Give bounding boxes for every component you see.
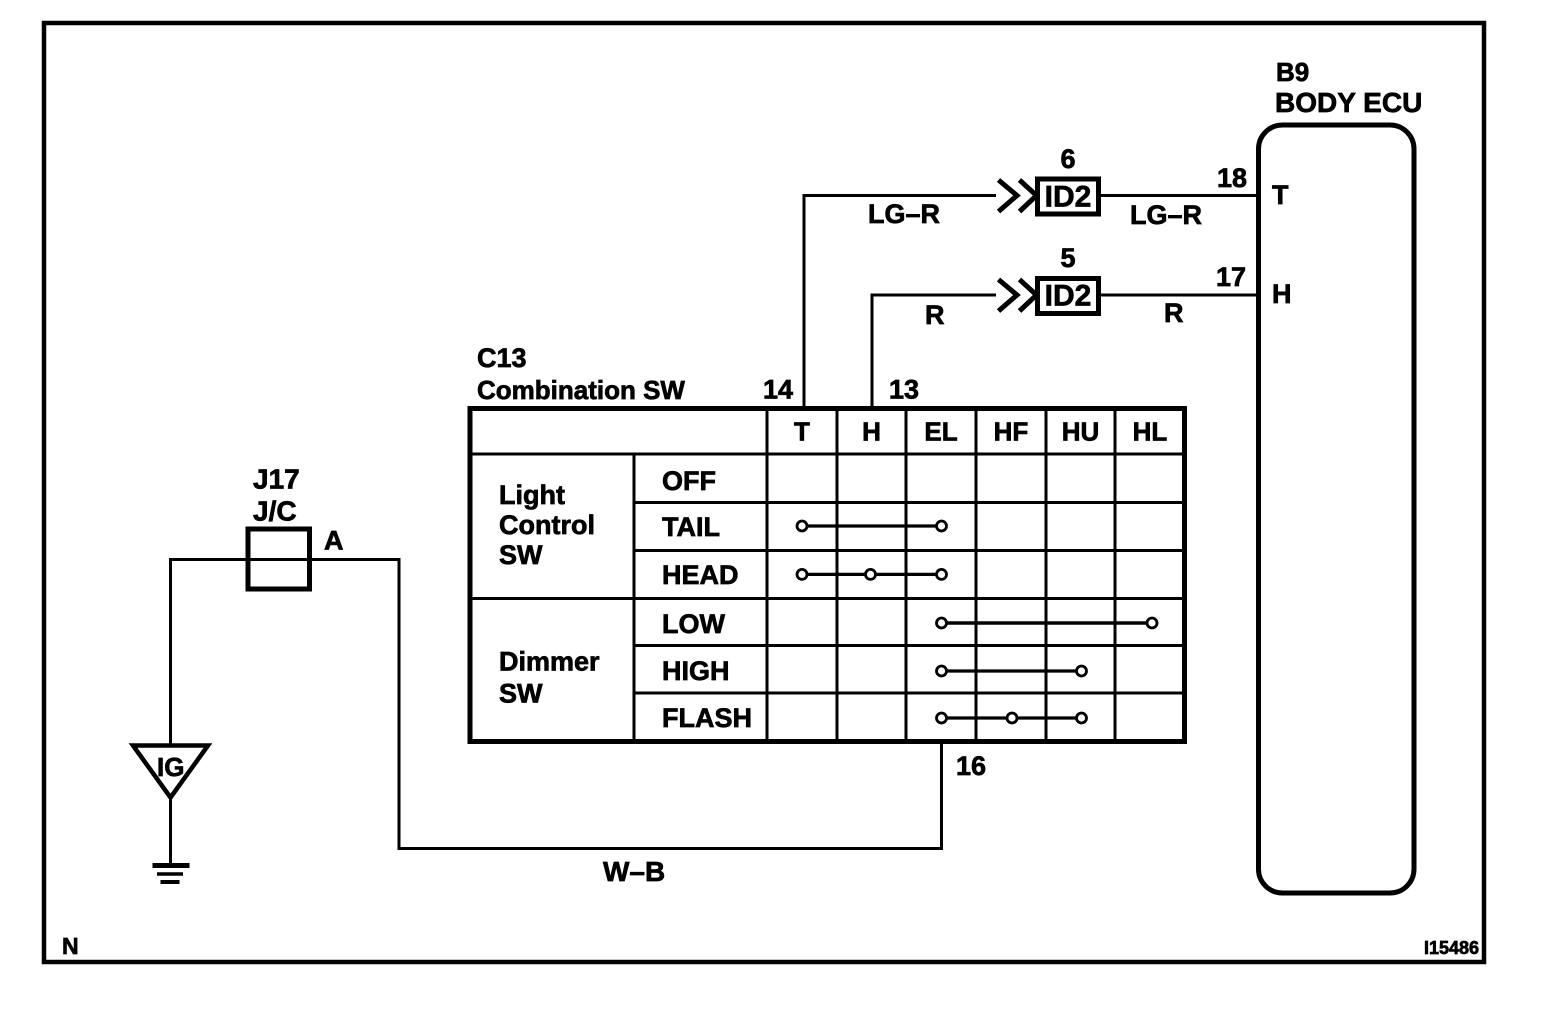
svg-text:W–B: W–B [603, 856, 665, 887]
label Combination SW [477, 375, 685, 405]
label LG-R (left) [868, 199, 940, 229]
contact LOW: EL to HL [937, 618, 1158, 628]
svg-text:H: H [862, 417, 881, 447]
svg-text:HEAD: HEAD [662, 560, 739, 590]
power source IG [133, 746, 208, 798]
svg-text:BODY ECU: BODY ECU [1275, 87, 1422, 118]
svg-text:C13: C13 [477, 343, 527, 373]
label W-B [603, 856, 665, 887]
wire R from ID2 pin 5 to B9 pin 17 [1101, 294, 1256, 297]
svg-text:T: T [1272, 180, 1289, 210]
label Light Control SW [499, 480, 595, 570]
label R (right) [1164, 298, 1184, 328]
label LG-R (right) [1130, 200, 1202, 230]
svg-text:IG: IG [157, 752, 184, 782]
svg-text:Light: Light [499, 480, 565, 510]
label Dimmer SW [499, 647, 600, 709]
svg-text:T: T [794, 417, 810, 447]
svg-text:J17: J17 [253, 464, 300, 495]
svg-text:I15486: I15486 [1424, 938, 1479, 958]
wire from J17 through to IG [171, 560, 311, 746]
svg-text:EL: EL [924, 417, 957, 447]
svg-text:SW: SW [499, 540, 543, 570]
svg-text:H: H [1272, 279, 1292, 309]
svg-text:16: 16 [956, 751, 986, 781]
contact FLASH: EL to HF to HU [937, 713, 1087, 723]
svg-text:ID2: ID2 [1045, 181, 1092, 214]
contact HEAD: T to H to EL [797, 569, 947, 579]
svg-text:6: 6 [1060, 144, 1075, 174]
pin 14 label [763, 375, 793, 405]
connector ID2 pin 5 [1038, 279, 1099, 314]
pin 17 label [1216, 262, 1246, 292]
label BODY ECU [1275, 87, 1422, 118]
pin number 5 [1060, 243, 1075, 273]
pin 16 label [956, 751, 986, 781]
svg-text:HIGH: HIGH [662, 656, 730, 686]
svg-text:B9: B9 [1276, 57, 1309, 87]
svg-text:5: 5 [1060, 243, 1075, 273]
svg-text:Control: Control [499, 510, 595, 540]
arrow into connector ID2 pin 6 [999, 180, 1037, 212]
svg-text:LOW: LOW [662, 609, 725, 639]
pin T of B9 [1272, 180, 1289, 210]
label J/C [253, 496, 297, 527]
wire LG-R from C13 pin 14 to ID2 pin 6 [804, 196, 996, 407]
switch position labels [662, 466, 752, 733]
svg-text:R: R [1164, 298, 1184, 328]
pin H of B9 [1272, 279, 1292, 309]
pin 18 label [1217, 163, 1247, 193]
svg-text:18: 18 [1217, 163, 1247, 193]
svg-text:LG–R: LG–R [868, 199, 940, 229]
svg-text:17: 17 [1216, 262, 1246, 292]
pin 13 label [889, 375, 919, 405]
svg-text:ID2: ID2 [1045, 280, 1092, 313]
arrow into connector ID2 pin 5 [999, 280, 1037, 312]
svg-text:Combination SW: Combination SW [477, 375, 685, 405]
svg-text:OFF: OFF [662, 466, 716, 496]
svg-text:HF: HF [994, 417, 1029, 447]
wire IG to ground [169, 799, 172, 864]
label C13 [477, 343, 527, 373]
svg-text:Dimmer: Dimmer [499, 647, 600, 677]
contact HIGH: EL to HU [937, 666, 1087, 676]
svg-text:N: N [62, 933, 79, 959]
svg-text:LG–R: LG–R [1130, 200, 1202, 230]
label R (left) [925, 300, 945, 330]
pin number 6 [1060, 144, 1075, 174]
svg-text:14: 14 [763, 375, 793, 405]
svg-text:A: A [324, 526, 344, 556]
ground [153, 866, 190, 883]
svg-text:J/C: J/C [253, 496, 297, 527]
pin A label [324, 526, 344, 556]
ECU B9 BODY ECU body [1259, 125, 1415, 893]
connector ID2 pin 6 [1038, 179, 1099, 214]
svg-text:HU: HU [1062, 417, 1100, 447]
label N [62, 933, 79, 959]
wire R from C13 pin 13 to ID2 pin 5 [872, 295, 996, 406]
junction connector J17 J/C [248, 529, 310, 589]
label J17 [253, 464, 300, 495]
svg-text:SW: SW [499, 679, 543, 709]
svg-text:R: R [925, 300, 945, 330]
label I15486 [1424, 938, 1479, 958]
svg-text:TAIL: TAIL [662, 512, 720, 542]
svg-text:FLASH: FLASH [662, 703, 752, 733]
contact TAIL: T to EL [797, 521, 947, 531]
label B9 [1276, 57, 1309, 87]
wire LG-R from ID2 pin 6 to B9 pin 18 [1101, 194, 1256, 197]
table header terminal labels T H EL HF HU HL [794, 417, 1167, 447]
combination switch C13 table frame [470, 409, 1185, 742]
wire W-B from C13 pin 16 to J17 pin A [310, 560, 942, 849]
svg-text:13: 13 [889, 375, 919, 405]
svg-text:HL: HL [1133, 417, 1168, 447]
